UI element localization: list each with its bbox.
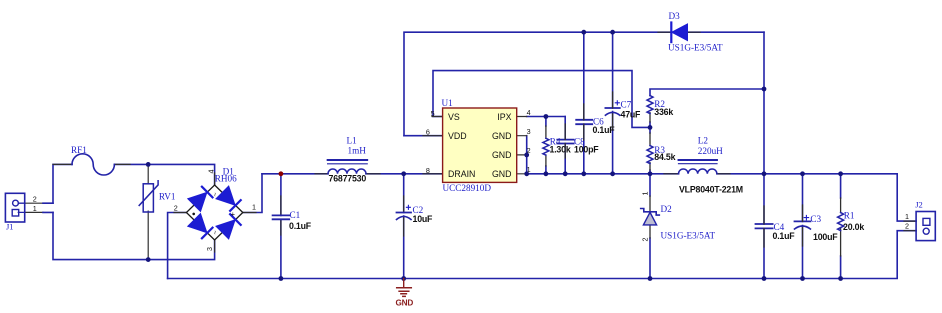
svg-text:2: 2 (641, 238, 650, 242)
svg-text:C1: C1 (290, 210, 301, 220)
junction C1 top (maroon) (279, 171, 284, 176)
connector J2 (904, 212, 935, 241)
svg-text:VLP8040T-221M: VLP8040T-221M (679, 184, 743, 194)
svg-text:RH06: RH06 (215, 173, 237, 183)
svg-text:336k: 336k (654, 107, 673, 117)
junction C6 top (581, 30, 586, 35)
capacitor C6 (576, 104, 592, 140)
wire top rail VDD net (404, 32, 764, 136)
wire R2 top row (650, 89, 764, 96)
svg-text:U1: U1 (442, 98, 454, 108)
junction C4 bottom (762, 276, 767, 281)
svg-text:6: 6 (426, 127, 430, 136)
junction R4 top (544, 114, 549, 119)
resistor R4 (543, 138, 549, 155)
svg-text:IPX: IPX (497, 112, 511, 122)
fuse RF1 (53, 154, 130, 175)
junction C6 bottom (581, 171, 586, 176)
capacitor C8 (557, 124, 573, 158)
junction C1 bottom (279, 276, 284, 281)
junction C2 main row (401, 171, 406, 176)
bridge rectifier D1 (174, 173, 256, 252)
wire C6 vertical (583, 32, 585, 174)
svg-text:3: 3 (527, 127, 531, 136)
wire bridge pin1 to main row (243, 174, 262, 213)
svg-text:RF1: RF1 (71, 145, 87, 155)
capacitor C3 (795, 205, 811, 246)
wire VS feedback (433, 71, 650, 128)
junction RV1 top (146, 162, 151, 167)
wire main row right (output row) (527, 174, 916, 221)
svg-text:GND: GND (492, 150, 512, 160)
svg-text:D2: D2 (661, 204, 673, 214)
svg-text:L2: L2 (698, 136, 709, 146)
wire main row (DRAIN net) (262, 173, 443, 175)
diode D1 bottom-left (188, 214, 207, 233)
junction U1 gnd pin1 (524, 171, 529, 176)
svg-text:UCC28910D: UCC28910D (443, 183, 492, 193)
wire C3 vertical (802, 174, 804, 279)
inductor L1 (315, 160, 380, 174)
svg-text:76877530: 76877530 (329, 174, 367, 184)
wire bridge pin2 to bottom rail (168, 213, 187, 279)
op-amp U1 UCC28910D (423, 108, 527, 182)
junction R4 bottom (544, 171, 549, 176)
svg-text:1.30k: 1.30k (550, 145, 571, 155)
svg-text:4: 4 (527, 108, 531, 117)
varistor RV1 (139, 164, 158, 259)
capacitor C2 (397, 196, 412, 236)
wire U1 gnd pins tie (526, 136, 528, 174)
svg-text:US1G-E3/5AT: US1G-E3/5AT (668, 43, 723, 53)
ground GND (397, 279, 412, 297)
svg-text:GND: GND (492, 169, 512, 179)
junction C7 bottom (610, 171, 615, 176)
svg-text:47uF: 47uF (621, 110, 642, 120)
inductor L2 (664, 160, 730, 174)
svg-text:GND: GND (492, 131, 512, 141)
svg-text:3: 3 (205, 247, 214, 251)
junction D2 bottom (648, 276, 653, 281)
resistor R2 (647, 96, 653, 114)
junction top rail right (762, 87, 767, 92)
wire C4 vertical (763, 174, 765, 279)
svg-text:1mH: 1mH (348, 146, 367, 156)
junction R1 top (838, 171, 843, 176)
junction R3 bottom main row (648, 171, 653, 176)
svg-text:5: 5 (431, 109, 435, 118)
capacitor C4 (756, 206, 773, 247)
svg-text:VS: VS (448, 112, 460, 122)
svg-text:2: 2 (33, 195, 37, 204)
wire C8 vertical (564, 117, 566, 174)
svg-text:2: 2 (174, 204, 178, 213)
svg-text:R1: R1 (844, 211, 855, 221)
wire VDD pin stub row (404, 135, 443, 137)
diode D1 top-right (216, 186, 235, 205)
svg-text:J1: J1 (6, 222, 14, 232)
junction R2 R3 (648, 125, 653, 130)
svg-text:1: 1 (252, 203, 256, 212)
wire D2 vertical (649, 174, 651, 279)
svg-text:0.1uF: 0.1uF (289, 221, 312, 231)
wire output rail vertical x764 (763, 32, 765, 174)
svg-text:L1: L1 (347, 136, 358, 146)
svg-text:100uF: 100uF (813, 232, 838, 242)
svg-text:100pF: 100pF (574, 145, 599, 155)
wire C2 vertical (403, 174, 405, 279)
junction C3 bottom (800, 276, 805, 281)
wire C7 vertical (612, 32, 614, 174)
svg-text:~: ~ (211, 192, 220, 196)
svg-text:1: 1 (33, 204, 37, 213)
svg-text:GND: GND (396, 299, 414, 308)
wire R1 vertical (840, 174, 842, 279)
wire C1 vertical (280, 174, 282, 279)
junction C7 top (610, 30, 615, 35)
diode D1 bottom-right (216, 220, 235, 239)
diode D3 (658, 23, 700, 43)
svg-text:1: 1 (641, 192, 650, 196)
svg-text:84.5k: 84.5k (654, 152, 675, 162)
diode D2 zener (641, 209, 660, 225)
svg-text:VDD: VDD (448, 131, 467, 141)
svg-text:C7: C7 (621, 100, 632, 110)
svg-text:220uH: 220uH (698, 146, 723, 156)
wire AC2 row J1 pin1 to bridge pin3 (53, 212, 215, 259)
svg-text:DRAIN: DRAIN (448, 169, 475, 179)
wire R4 vertical (545, 117, 547, 174)
junction output rail main row (762, 171, 767, 176)
wire IPX row (527, 116, 566, 118)
svg-text:0.1uF: 0.1uF (593, 125, 616, 135)
svg-text:20.0k: 20.0k (843, 222, 864, 232)
wire bottom rail (168, 231, 917, 279)
wire AC1 row J1 pin2 to bridge pin4 (53, 164, 215, 203)
junction C2 bottom (401, 276, 406, 281)
svg-text:D3: D3 (669, 11, 681, 21)
svg-text:~: ~ (211, 230, 220, 234)
svg-text:2: 2 (905, 222, 909, 231)
svg-text:US1G-E3/5AT: US1G-E3/5AT (661, 231, 716, 241)
diode D1 top-left (188, 192, 207, 211)
junction R1 bottom (838, 276, 843, 281)
capacitor C7 (605, 92, 619, 129)
junction C3 main row (800, 171, 805, 176)
svg-text:+: + (231, 209, 235, 218)
junction RV1 bottom (146, 257, 151, 262)
resistor R3 (647, 146, 653, 164)
svg-text:RV1: RV1 (159, 192, 176, 202)
bridge minus mark (192, 213, 195, 216)
connector J1 (5, 193, 53, 222)
wire R2 R3 branch (649, 122, 651, 174)
junction C8 bottom (563, 171, 568, 176)
capacitor C1 (273, 196, 290, 235)
svg-text:C3: C3 (810, 214, 821, 224)
svg-text:1: 1 (905, 212, 909, 221)
svg-text:8: 8 (426, 166, 430, 175)
svg-text:0.1uF: 0.1uF (773, 231, 796, 241)
svg-text:4: 4 (207, 170, 216, 174)
junction U1 gnd pin2 (524, 153, 529, 158)
svg-text:J2: J2 (915, 200, 923, 210)
svg-text:10uF: 10uF (413, 214, 434, 224)
resistor R1 (838, 213, 844, 231)
